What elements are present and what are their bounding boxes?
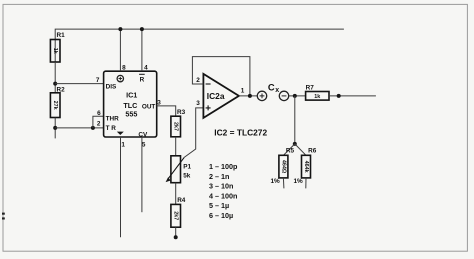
wire IC1 pin8 to rail bbox=[119, 29, 121, 71]
svg-text:8: 8 bbox=[122, 65, 126, 72]
svg-text:C: C bbox=[268, 82, 275, 93]
wire IC1 pin4 to rail bbox=[141, 29, 143, 71]
wire THR jog to IC1 pin6 bbox=[93, 116, 104, 128]
svg-text:1 – 100p: 1 – 100p bbox=[209, 162, 238, 171]
wire R4 to ground rail bbox=[175, 227, 177, 237]
svg-text:3 – 10n: 3 – 10n bbox=[209, 182, 233, 191]
svg-text:2k7: 2k7 bbox=[173, 122, 179, 131]
svg-text:6: 6 bbox=[97, 110, 101, 117]
svg-text:1%: 1% bbox=[294, 178, 304, 185]
svg-text:THR: THR bbox=[106, 115, 120, 122]
svg-text:R2: R2 bbox=[57, 86, 66, 93]
svg-text:6 – 10µ: 6 – 10µ bbox=[209, 211, 233, 220]
svg-text:DIS: DIS bbox=[106, 83, 117, 90]
svg-text:x: x bbox=[275, 87, 279, 94]
terminal Cx plus bbox=[257, 91, 266, 100]
svg-text:R3: R3 bbox=[177, 109, 186, 116]
wire node to R5/R6 bbox=[294, 96, 296, 144]
wire R5 to S1b bbox=[282, 178, 285, 189]
svg-text:4: 4 bbox=[144, 65, 148, 72]
resistor R3 bbox=[171, 109, 186, 137]
wire R1-R2 bbox=[54, 62, 56, 93]
svg-text:2k7: 2k7 bbox=[173, 211, 179, 220]
svg-text:1k: 1k bbox=[52, 48, 58, 54]
svg-text:CV: CV bbox=[138, 131, 148, 138]
svg-text:5: 5 bbox=[142, 142, 146, 149]
resistor R6 bbox=[294, 148, 317, 185]
svg-text:R6: R6 bbox=[308, 148, 317, 155]
terminal Cx minus bbox=[279, 91, 288, 100]
svg-text:1: 1 bbox=[241, 87, 245, 94]
svg-text:OUT: OUT bbox=[142, 103, 156, 110]
svg-text:2 – 1n: 2 – 1n bbox=[209, 172, 229, 181]
resistor R4 bbox=[171, 197, 186, 227]
range list bbox=[209, 162, 238, 220]
svg-text:R4: R4 bbox=[177, 197, 186, 204]
resistor R2 bbox=[50, 86, 65, 117]
svg-text:IC1: IC1 bbox=[126, 91, 137, 100]
potentiometer P1 bbox=[166, 156, 192, 183]
op-amp IC2a bbox=[203, 74, 239, 118]
wire R7 to IC2b pin5 bbox=[329, 95, 376, 97]
wire R6 to S1b bbox=[305, 178, 307, 189]
svg-text:P1: P1 bbox=[183, 164, 191, 171]
svg-text:1%: 1% bbox=[271, 178, 281, 185]
svg-text:R: R bbox=[140, 77, 145, 84]
svg-text:R1: R1 bbox=[57, 32, 66, 39]
node THR junction bbox=[91, 126, 95, 130]
wire OUT to R3 bbox=[157, 106, 176, 116]
resistor R1 bbox=[50, 32, 65, 62]
svg-text:2: 2 bbox=[196, 77, 200, 84]
wire IC1 pin5 to C1 bbox=[141, 137, 143, 212]
wire DIS to IC1 pin7 bbox=[55, 83, 103, 85]
wire P1 wiper to IC2a pin3 bbox=[184, 108, 203, 157]
op-amp/timer IC1 TLC555 bbox=[104, 71, 157, 138]
wire feedback loop IC2a bbox=[192, 57, 250, 96]
wire R3-P1 bbox=[175, 137, 177, 156]
svg-text:IC2a: IC2a bbox=[207, 91, 225, 101]
svg-text:464k: 464k bbox=[303, 161, 309, 173]
svg-text:5k: 5k bbox=[183, 173, 191, 180]
svg-text:464Ω: 464Ω bbox=[280, 160, 286, 174]
svg-text:R5: R5 bbox=[286, 148, 295, 155]
wire output to Cx+ bbox=[239, 95, 257, 97]
svg-text:5 – 1µ: 5 – 1µ bbox=[209, 201, 229, 210]
wire IC1 pin1 to ground rail bbox=[120, 137, 122, 237]
node TR junction bbox=[53, 126, 57, 130]
wire P1-R4 bbox=[175, 183, 177, 205]
node DIS junction bbox=[53, 82, 57, 86]
svg-text:R7: R7 bbox=[306, 84, 315, 91]
svg-text:3: 3 bbox=[196, 100, 200, 107]
svg-text:7: 7 bbox=[96, 77, 100, 84]
svg-text:2: 2 bbox=[97, 121, 101, 128]
wire +5V top rail bbox=[55, 29, 344, 62]
svg-text:T R: T R bbox=[106, 125, 117, 132]
resistor R5 bbox=[271, 148, 295, 185]
svg-text:1k: 1k bbox=[314, 94, 320, 100]
svg-text:27k: 27k bbox=[52, 101, 58, 110]
svg-text:1: 1 bbox=[121, 142, 125, 149]
wire R2 to TR line bbox=[54, 118, 56, 139]
wire Cx- to R7 bbox=[289, 95, 306, 97]
resistor R7 bbox=[306, 84, 329, 100]
wire TR line to IC1 pin2 bbox=[55, 127, 103, 129]
svg-text:4 – 100n: 4 – 100n bbox=[209, 191, 237, 200]
svg-text:555: 555 bbox=[125, 109, 137, 118]
svg-text:IC2 = TLC272: IC2 = TLC272 bbox=[214, 127, 267, 137]
